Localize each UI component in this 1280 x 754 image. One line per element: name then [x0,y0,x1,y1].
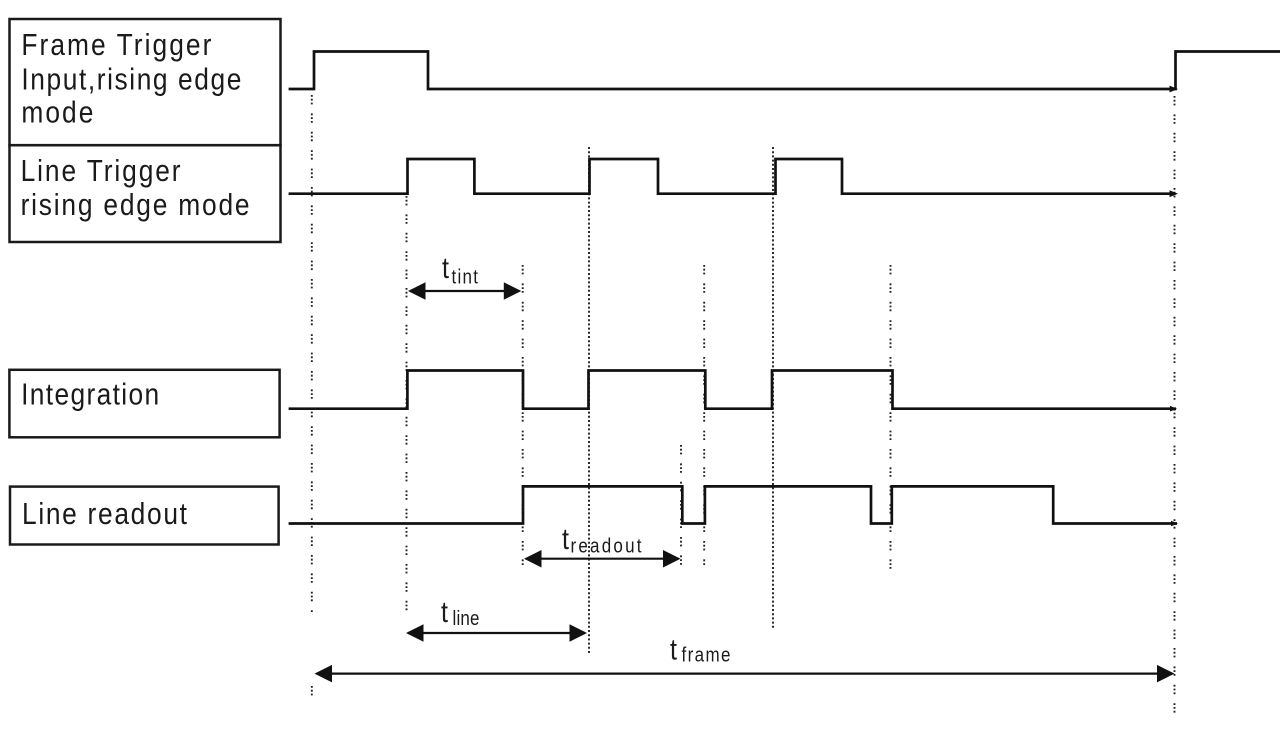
svg-text:mode: mode [21,96,93,130]
svg-text:Line Trigger: Line Trigger [21,154,181,188]
svg-text:readout: readout [571,534,643,557]
svg-text:frame: frame [682,643,731,666]
svg-text:Input,rising edge: Input,rising edge [21,62,241,96]
svg-text:t: t [441,595,448,628]
svg-text:t: t [670,633,677,666]
svg-text:t: t [562,522,569,555]
svg-text:rising edge mode: rising edge mode [21,188,250,222]
svg-text:Frame Trigger: Frame Trigger [21,28,211,62]
svg-text:t: t [442,251,449,284]
svg-text:Line readout: Line readout [22,497,187,531]
svg-text:Integration: Integration [21,378,159,412]
svg-text:line: line [453,607,480,630]
svg-text:tint: tint [452,265,479,288]
